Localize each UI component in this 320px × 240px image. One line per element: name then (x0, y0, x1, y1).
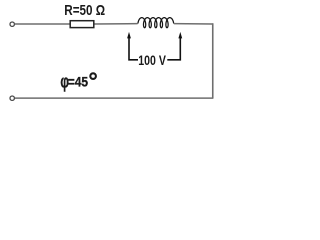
wire inductor to top-right corner (174, 23, 213, 25)
wire resistor to inductor (95, 23, 138, 25)
voltage arrow left (stem and foot) (129, 38, 138, 60)
terminal T1 (top-left input) (10, 22, 14, 26)
svg-text:=45: =45 (68, 75, 88, 90)
voltage arrow right (stem and foot) (167, 38, 180, 60)
wire bottom (right corner to terminal) (15, 97, 214, 99)
label degree superscript o (ring) (90, 73, 96, 79)
resistor R (70, 21, 94, 28)
inductor L (5-loop coil) (138, 18, 174, 28)
voltage arrow right (arrowhead) (178, 32, 182, 39)
wire top-left (terminal to resistor) (15, 23, 70, 25)
wire right vertical (212, 23, 214, 98)
voltage arrow left (arrowhead) (127, 32, 131, 39)
svg-text:R=50 Ω: R=50 Ω (64, 3, 105, 19)
svg-text:100 V: 100 V (138, 52, 166, 68)
terminal T2 (bottom-left input) (10, 96, 14, 100)
